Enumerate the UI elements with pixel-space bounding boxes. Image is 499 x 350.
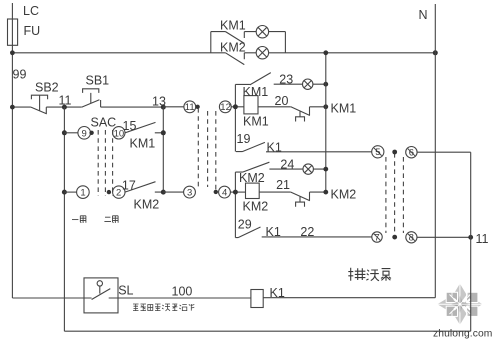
node lamp24-riser [323,167,328,172]
wire contact21 to N riser [310,191,326,193]
contact KM2 aux for lamp 24 [235,162,269,172]
node left-vertical tap [10,105,15,110]
wire contact20 to N riser [310,106,326,108]
svg-text:1: 1 [80,188,85,199]
wire V7 KM2 node vertical [234,172,236,238]
wire to SAC pin 9 [64,132,78,134]
svg-text:11: 11 [185,102,195,113]
terminal 6 [406,147,417,158]
svg-text:29: 29 [238,218,252,232]
svg-text:K1: K1 [267,141,282,155]
watermark logo [437,284,482,325]
svg-text:SB1: SB1 [86,74,110,88]
node SAC row2 tap [62,190,67,195]
wire left riser to SL [12,297,84,299]
svg-text:2: 2 [116,188,121,199]
node 13 junction [161,105,166,110]
wire node13 riser down [162,107,164,192]
svg-text:KM1: KM1 [243,85,269,99]
node lamp23-riser [323,82,328,87]
relay coil K1 [251,290,263,308]
small hanzi caption under SL wire [133,304,195,311]
terminal 4 [219,186,231,198]
lamp HL2 [256,47,268,59]
wire 19-line to pin 5 [266,151,372,153]
contact KM1 aux for lamp 23 [235,73,270,85]
wire 22-line to pin 7 [262,236,372,238]
svg-text:SL: SL [118,284,133,298]
float switch SL symbol [97,281,102,286]
pushbutton SB2 (NC) [31,95,48,114]
coil KM1 [244,96,258,114]
pushbutton SB1 (NO) [82,89,101,107]
wire pin4 to KM2 coil [230,191,245,193]
svg-text:9: 9 [82,128,87,139]
svg-text:SB2: SB2 [35,81,59,95]
wire L phase down through fuse [11,3,13,298]
node V6 coil tap [233,104,238,109]
wire-11 right riser [470,152,472,331]
svg-text:20: 20 [275,94,289,108]
node wire-11 right [468,235,473,240]
terminal 12 [219,101,231,113]
terminal 7 [372,232,382,242]
svg-text:KM2: KM2 [220,41,246,55]
svg-text:LC: LC [23,4,39,18]
connector XS dashed lines (right) [386,153,404,237]
wire control line from fuse to SB2 [12,106,31,108]
node KM2-N riser [323,190,328,195]
float switch SL box [84,278,118,313]
lamp 23 [303,79,313,89]
wire to SAC pin 1 [64,191,76,193]
node riser row2 [161,190,166,195]
svg-text:17: 17 [122,179,136,193]
node dash bottom [392,235,397,240]
svg-text:21: 21 [276,178,290,192]
terminal 3 [184,186,196,198]
svg-text:zhulong.com: zhulong.com [433,329,492,340]
wire V6 KM1 node vertical [234,84,236,151]
svg-text:12: 12 [220,102,231,113]
wire N vertical [434,4,436,298]
terminal 5 [372,146,384,158]
svg-text:3: 3 [187,188,192,199]
pump label hanzi (sewage pump) [348,268,391,281]
wire lamp 23 [274,83,326,85]
wire N collector riser [325,53,327,192]
contact K1 (19) auto-start KM1 [236,142,265,151]
svg-text:KM1: KM1 [130,137,156,151]
wire node11 left riser down [63,107,65,331]
svg-text:19: 19 [237,132,251,146]
terminal 1 [77,186,90,199]
wire pin12 to KM1 coil [231,106,244,108]
svg-text:11: 11 [476,232,489,246]
svg-text:99: 99 [13,68,27,82]
svg-text:KM2: KM2 [134,198,160,212]
svg-text:KM1: KM1 [331,102,357,116]
wire bottom return [64,330,470,332]
svg-text:6: 6 [409,148,414,159]
svg-text:KM2: KM2 [331,188,357,202]
terminal 8 [406,232,417,243]
svg-text:SAC: SAC [91,116,117,130]
wire lamp 24 [269,168,325,170]
selector SAC dashed linkage [98,130,112,196]
svg-text:5: 5 [375,147,380,158]
svg-text:15: 15 [123,119,137,133]
svg-text:KM2: KM2 [243,200,269,214]
node V7 coil tap [233,190,238,195]
svg-text:7: 7 [374,232,379,243]
node left of KM1 coil [233,104,238,109]
terminal 10 [113,127,125,139]
wire lamp branch right riser [284,32,286,53]
contact K1 (29) auto-start KM2 [235,227,260,238]
node right of pin 11 [195,105,199,109]
label position 1 (one-use) hanzi [72,216,86,223]
node 11 junction [62,105,67,110]
svg-text:100: 100 [172,285,193,299]
node left of pin 2 [107,190,111,194]
svg-text:11: 11 [59,94,72,108]
wire node13 to pin 11 [163,106,184,108]
coil KM2 [246,183,260,198]
top bus wire to N [12,52,435,54]
wire pin 8 to node 11 right [417,236,471,238]
svg-text:KM1: KM1 [220,19,246,33]
wire SL to K1 coil [118,297,251,299]
svg-text:8: 8 [409,233,414,244]
node KM1-N riser [323,104,328,109]
svg-text:FU: FU [24,24,41,38]
node riser top [323,50,328,55]
node fuse-bus junction [10,50,15,55]
wire KM1 lamp branch [211,31,286,33]
wire SB1 to node 13 [101,106,164,108]
terminal 9 [78,127,91,140]
svg-text:4: 4 [222,188,227,199]
node left of KM2 coil [233,190,238,195]
node riser row1 [161,130,166,135]
wire riser to pin 3 [163,191,183,193]
wire KM1 coil to contact 20 [258,106,291,108]
svg-text:KM1: KM1 [243,115,269,129]
svg-text:N: N [419,8,428,22]
terminal 11 [184,101,196,113]
node bus-N junction [433,50,438,55]
wire SB2 to SB1 [46,106,82,108]
wire K1 coil to N [263,297,435,299]
contact KM2 self-hold (17) [125,182,163,192]
contact KM2 (on bus) [226,53,245,65]
node bottom of connector dash [214,190,218,194]
node SAC row1 tap [62,130,67,135]
connector XP dashed lines (left) [198,108,216,190]
contact KM1 self-hold (15) [125,122,163,132]
node dash top [392,150,397,155]
terminal 2 [113,186,125,198]
lamp 24 [303,164,313,174]
fuse FU [8,19,18,45]
contact 20 (KM2 interlock NC) [291,107,310,122]
wire lamp branch left riser [210,32,212,53]
lamp HL1 [256,26,268,38]
wire KM2 coil to contact 21 [259,191,291,193]
node right of pin 9 [89,131,93,135]
wire pin 6 to wire-11 riser [417,151,471,153]
contact 21 (KM1 interlock NC) [291,192,310,207]
label position 2 (two-use) hanzi [104,216,118,223]
contact KM1 (lamp branch) [226,32,245,44]
